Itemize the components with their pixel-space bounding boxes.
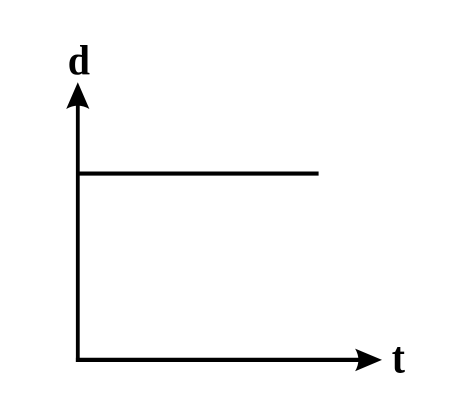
svg-text:d: d: [68, 37, 90, 84]
svg-text:t: t: [392, 333, 405, 383]
